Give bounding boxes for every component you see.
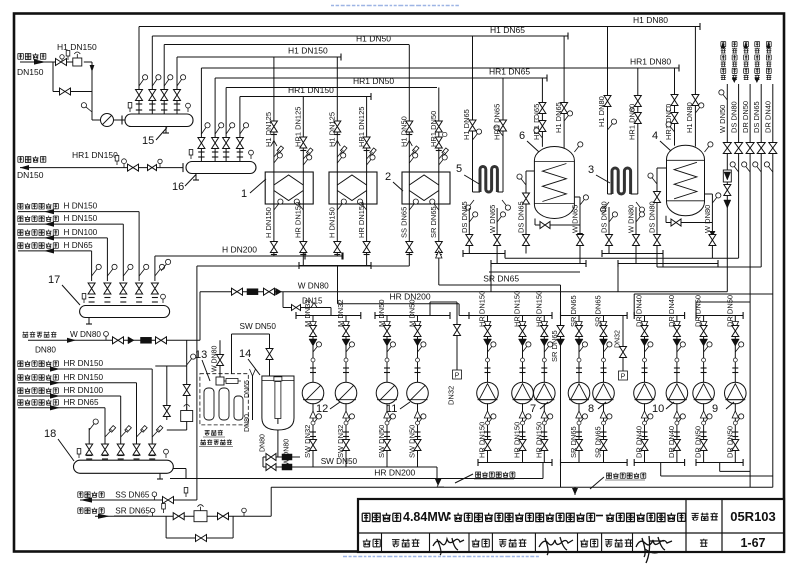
riser 1 from header 15	[138, 27, 140, 115]
svg-text:HR DN200: HR DN200	[390, 292, 431, 302]
pump at x522.5	[512, 382, 534, 404]
svg-text:HR1 DN80: HR1 DN80	[630, 57, 671, 67]
plate heat exchanger 1 unit B	[329, 172, 377, 204]
svg-text:SR DN65: SR DN65	[483, 274, 519, 284]
svg-text:HR DN150: HR DN150	[534, 422, 543, 458]
drain note text paishuiguan	[205, 430, 210, 435]
svg-text:HR DN150: HR DN150	[534, 291, 543, 327]
gauge on return line	[123, 164, 125, 168]
strainer cluster tank14 outlet	[263, 456, 300, 458]
pump at x735.3	[725, 382, 747, 404]
tank4 shell gauge	[705, 147, 709, 153]
gauge on riser 15-3	[164, 79, 169, 86]
zone return line 1	[18, 368, 152, 370]
softener cylinder A	[204, 388, 214, 420]
svg-text:W DN80: W DN80	[70, 330, 101, 339]
pump riser DR DN50 x735.3	[734, 316, 736, 383]
tank6 inlet H1 DN65	[563, 36, 565, 148]
right column arrow 5	[766, 42, 770, 48]
SR bypass vertical	[560, 285, 562, 463]
riser 2 from header 15	[151, 36, 153, 114]
zone return drop 2	[136, 383, 138, 444]
svg-text:H DN150: H DN150	[328, 207, 337, 238]
tank6 shell gauge	[574, 147, 578, 153]
svg-text:DR DN50: DR DN50	[694, 426, 703, 458]
pipe W DN80 at x636	[635, 207, 637, 264]
coil5 bottom gauges	[470, 200, 474, 206]
svg-text:H1 DN150: H1 DN150	[288, 46, 328, 56]
pipe H1 DN150	[177, 56, 341, 58]
right column CJK label 1	[721, 75, 726, 80]
signature niu xiaohua	[433, 538, 464, 555]
pump at x644.5	[634, 382, 656, 404]
svg-text:H1 DN50: H1 DN50	[356, 34, 391, 44]
pump at x579	[568, 382, 590, 404]
DR DN50 discharge to column	[696, 301, 750, 303]
gauge on riser 15-1	[139, 79, 144, 86]
SR riser up to long line	[270, 487, 272, 516]
svg-text:SR DN65: SR DN65	[429, 206, 438, 238]
bypass pipes left of softener	[186, 340, 188, 430]
title block column dividers	[685, 499, 687, 552]
drum17 drain	[88, 318, 90, 325]
svg-text:11: 11	[386, 403, 397, 415]
coil3 bottom gauges	[605, 202, 609, 208]
zone supply riser 3	[106, 238, 108, 281]
w80 gauge	[105, 336, 107, 340]
DR DN50 column down	[749, 154, 751, 488]
svg-text:H1 DN80: H1 DN80	[633, 15, 668, 25]
pipe HR1 DN150	[240, 96, 371, 98]
pump outlet x644.5	[644, 403, 646, 462]
svg-text:DS DN65: DS DN65	[460, 201, 469, 233]
svg-text:P: P	[455, 372, 460, 379]
svg-text:DS DN65: DS DN65	[517, 201, 526, 233]
pipe H DN150 under HX1a	[273, 204, 275, 256]
svg-text:H DN150: H DN150	[64, 214, 98, 223]
collector seg DS coil5	[463, 253, 505, 255]
flange ticks riser 15-2	[149, 103, 155, 105]
svg-text:HR1 DN50: HR1 DN50	[429, 111, 438, 147]
pump riser M DN32 x313	[312, 316, 314, 383]
svg-text:6: 6	[519, 130, 525, 142]
drum18 drain	[159, 473, 161, 479]
svg-text:W DN80: W DN80	[298, 282, 329, 291]
svg-text:HR1 DN150: HR1 DN150	[72, 150, 118, 160]
valve on supply line	[56, 59, 67, 66]
header drum 15	[125, 114, 193, 127]
zone return drop 1	[151, 369, 153, 444]
header drum 18	[74, 460, 174, 473]
bypass prv	[181, 411, 193, 422]
pump at x417.5	[407, 382, 429, 404]
volume heat exchanger tank 6	[534, 147, 574, 219]
pump outlet x417.5	[417, 403, 419, 467]
svg-text:H1 DN125: H1 DN125	[264, 112, 273, 147]
drum 15 drain	[165, 127, 167, 134]
pump riser M DN32 x346	[345, 316, 347, 383]
W DN50 down components	[726, 154, 728, 292]
flange ticks riser 15-1	[136, 103, 142, 105]
svg-text:W DN80: W DN80	[627, 205, 636, 233]
tank14 drain pipe down	[277, 430, 279, 457]
gauge on riser 15-2	[152, 79, 157, 86]
pump outlet x487.5	[487, 403, 489, 462]
SR bypass loop	[165, 516, 167, 538]
pipe H1 DN125 drop to HX1a	[273, 57, 275, 172]
softened water tank 14	[262, 376, 294, 430]
gauge on riser 16-2	[215, 127, 220, 134]
w80 strainer	[141, 337, 152, 343]
svg-text:H1 DN125: H1 DN125	[328, 112, 337, 147]
svg-text:05R103: 05R103	[730, 509, 776, 524]
svg-text:DS DN80: DS DN80	[729, 101, 738, 133]
pipe SR DN65 under HX2	[438, 204, 440, 285]
svg-text:M DN32: M DN32	[303, 299, 312, 327]
svg-text:2: 2	[385, 171, 391, 183]
watermark bottom blue text	[343, 556, 539, 558]
right column valve W DN50	[723, 143, 731, 154]
pump group 11 suction header	[375, 315, 450, 317]
right column valve DS DN65	[757, 143, 765, 154]
right column arrow 4	[755, 78, 760, 83]
riser 3 from header 15	[163, 45, 165, 115]
parallel W seg line	[489, 271, 580, 273]
pump riser HR DN150 x522.5	[522, 316, 524, 383]
svg-text:DR DN40: DR DN40	[764, 101, 773, 133]
svg-text:SW DN32: SW DN32	[303, 425, 312, 458]
svg-text:H1 DN50: H1 DN50	[400, 116, 409, 147]
tank6 inlet HR1 DN65	[541, 78, 543, 147]
svg-text:12: 12	[316, 403, 328, 415]
svg-text:9: 9	[712, 403, 718, 415]
svg-text:W DN80: W DN80	[703, 205, 712, 233]
svg-text:15: 15	[142, 135, 154, 147]
svg-text:HR DN150: HR DN150	[294, 202, 303, 238]
svg-text:H DN150: H DN150	[64, 202, 98, 211]
pump outlet x603.5	[603, 403, 605, 462]
gauge on riser 16-1	[201, 127, 206, 134]
pool return line SR DN65	[95, 515, 271, 517]
svg-text:HR1 DN125: HR1 DN125	[294, 107, 303, 147]
svg-text:SR DN65: SR DN65	[115, 507, 150, 516]
pump at x346	[335, 382, 357, 404]
pipe H1 DN80 top	[139, 26, 700, 28]
svg-text:DR DN40: DR DN40	[635, 426, 644, 458]
ruanhua shuixiang note 1	[437, 479, 444, 487]
drum17 instruments	[83, 299, 85, 303]
water softener unit 13 dashed enclosure	[200, 374, 248, 425]
sheji label	[580, 539, 588, 547]
svg-text:DS DN80: DS DN80	[600, 201, 609, 233]
w80 valve1	[113, 337, 124, 344]
header18 riser valves	[86, 444, 93, 455]
return label rewang huishui	[18, 157, 23, 163]
svg-text:SW DN32: SW DN32	[336, 425, 345, 458]
gauge on riser 16-4	[240, 127, 245, 134]
relief symbol 1	[435, 479, 441, 486]
zone supply line 1	[18, 211, 139, 213]
w80 riser to W main	[199, 292, 201, 341]
second valve check on return	[148, 165, 157, 171]
svg-text:4.84MW: 4.84MW	[403, 510, 450, 524]
svg-text:H1 DN150: H1 DN150	[57, 42, 97, 52]
pump riser DR DN40 x676.9	[676, 316, 678, 383]
pump group 8 header	[561, 315, 628, 317]
header18 riser 1 short	[88, 428, 90, 444]
DS DN65 column down	[760, 154, 762, 268]
shenhe label	[363, 539, 371, 547]
pump outlet x346	[345, 403, 347, 467]
svg-text:HR DN150: HR DN150	[478, 422, 487, 458]
svg-text:W DN50: W DN50	[718, 105, 727, 133]
SR prv	[194, 511, 207, 522]
coil heat exchanger 5 serpentine	[480, 166, 497, 192]
svg-text:SR DN65: SR DN65	[569, 426, 578, 458]
svg-text:DR DN50: DR DN50	[694, 295, 703, 327]
collector seg DS coil3	[602, 253, 663, 255]
pump outlet x703.6	[703, 403, 705, 462]
softener feed pipe W DN80	[219, 340, 221, 377]
valve on riser 16-2	[212, 138, 219, 149]
svg-text:DN150: DN150	[17, 170, 44, 180]
SS riser to HX2	[196, 266, 198, 500]
drum 16 left instrument	[190, 155, 192, 159]
svg-text:DN65: DN65	[244, 380, 251, 398]
bypass valve	[60, 88, 71, 95]
valve on riser 15-3	[161, 90, 168, 101]
svg-text:SW DN50: SW DN50	[240, 322, 277, 331]
title block row divider	[358, 532, 784, 534]
zone return line 3	[18, 395, 121, 397]
tank4 inlet H1 DN80	[694, 27, 696, 147]
valve on riser 15-1	[136, 90, 143, 101]
long SR suction line bottom	[271, 486, 773, 488]
drum 15 left instrument	[129, 108, 131, 112]
right column valve DS DN80	[735, 143, 743, 154]
relief symbol 2	[572, 488, 578, 495]
main title text zongrefuhe 4.84MW	[362, 513, 370, 521]
svg-text:5: 5	[456, 163, 462, 175]
riser 1 from header 16	[200, 68, 202, 162]
pump outlet x676.9	[676, 403, 678, 462]
svg-text:H1 DN65: H1 DN65	[490, 25, 525, 35]
pump group 9 header	[696, 315, 743, 317]
zone return drop 3	[120, 396, 122, 444]
zhu guosheng name	[605, 540, 613, 547]
pipe DS DN65 at x526	[523, 235, 530, 246]
signature guo qizhi	[539, 537, 573, 555]
signature zhu guosheng	[636, 536, 672, 563]
valve on riser 15-2	[149, 90, 156, 101]
DS main riser to DS DN80 column	[504, 254, 506, 259]
right column pipe DS DN80	[738, 84, 740, 148]
supply label rewang gongshui	[18, 54, 23, 60]
header 17 riser valves	[88, 283, 95, 294]
right column arrow 3	[744, 42, 748, 48]
svg-text:7: 7	[530, 403, 536, 415]
w main valve1	[232, 288, 243, 295]
tank4 left pipe DS	[656, 168, 658, 267]
pump group 12 suction header	[296, 315, 361, 317]
pipe DS DN65 at x469.3	[468, 208, 470, 254]
zone supply line 3	[18, 237, 107, 239]
valve on riser 16-1	[198, 138, 205, 149]
svg-text:DR DN40: DR DN40	[635, 295, 644, 327]
pump riser DR DN40 x644.5	[644, 316, 646, 383]
svg-text:H1 DN80: H1 DN80	[597, 96, 606, 127]
w80 valve2	[156, 337, 167, 344]
svg-text:H DN65: H DN65	[64, 241, 94, 250]
svg-text:SR DN65: SR DN65	[594, 295, 603, 327]
instrument on return	[116, 161, 118, 165]
right column pipe DS DN65	[760, 84, 762, 148]
w main check	[276, 288, 282, 295]
HR DN200 vertical to pump suction	[458, 304, 460, 316]
pipe W DN80 at x712.4	[709, 235, 716, 246]
right column CJK label 4	[755, 75, 760, 80]
ye page label	[700, 539, 708, 547]
collector HR segs under HX1	[299, 265, 371, 267]
pump riser SR DN65 x603.5	[603, 316, 605, 383]
right column arrow 2	[732, 78, 737, 83]
flange ticks riser 15-3	[161, 103, 167, 105]
pump riser M DN50 x387	[386, 316, 388, 383]
guo qizhi name	[499, 540, 507, 547]
gauge on downpipe	[86, 107, 92, 112]
svg-text:14: 14	[239, 348, 251, 360]
header drum 17	[80, 306, 170, 318]
drum 16 right gauge	[250, 155, 252, 159]
softener top control box	[216, 377, 224, 385]
svg-text:HR DN150: HR DN150	[64, 359, 104, 368]
svg-text:16: 16	[172, 181, 184, 193]
w main valve2	[264, 288, 275, 295]
tuji hao label	[691, 513, 698, 520]
svg-text:DR DN40: DR DN40	[667, 295, 676, 327]
bottom row cell dividers	[381, 533, 383, 552]
tank6 bottom drain	[535, 224, 580, 226]
svg-text:DS DN65: DS DN65	[752, 101, 761, 133]
svg-text:HR1 DN150: HR1 DN150	[288, 85, 334, 95]
svg-text:DR DN50: DR DN50	[725, 426, 734, 458]
pump at x676.9	[666, 382, 688, 404]
riser 4 from header 16	[239, 97, 241, 162]
header drum 16	[186, 162, 256, 174]
w main strainer	[247, 289, 258, 295]
svg-text:H1 DN65: H1 DN65	[554, 102, 563, 133]
pump group 7 discharge header	[469, 315, 552, 317]
DR DN40 column down	[772, 154, 774, 488]
pipe HR1 DN50 drop to HX2	[438, 88, 440, 173]
pump riser HR DN150 x544.3	[543, 316, 545, 383]
pump riser M DN50 x417.5	[417, 316, 419, 383]
gauge on riser 16-3	[226, 127, 231, 134]
svg-text:DN80: DN80	[35, 346, 56, 355]
W DN80 main line across	[200, 291, 727, 293]
svg-text:DR DN50: DR DN50	[725, 295, 734, 327]
tank6 drain check down	[577, 233, 583, 239]
pump outlet x522.5	[522, 403, 524, 462]
pipe H1 DN50	[164, 44, 409, 46]
svg-text:DN32: DN32	[447, 386, 456, 405]
svg-text:DS DN80: DS DN80	[648, 201, 657, 233]
gauge pair on supply	[61, 59, 63, 62]
riser 2 from header 16	[214, 78, 216, 162]
valve on riser 15-4	[174, 90, 181, 101]
svg-text:W DN65: W DN65	[571, 205, 580, 233]
gauges on DS W pipes	[469, 217, 473, 223]
drain funnel under softener	[250, 369, 256, 376]
tank4 inlet HR1 DN80	[674, 68, 676, 146]
softener cylinder C small	[234, 396, 243, 420]
valve on riser 16-3	[223, 138, 230, 149]
riser 4 from header 15	[176, 57, 178, 114]
pipe HR1 DN50	[226, 87, 437, 89]
svg-text:10: 10	[652, 403, 664, 415]
right column pipe DR DN50	[749, 84, 751, 148]
right column arrow 1	[721, 42, 725, 48]
svg-text:1-67: 1-67	[740, 536, 765, 550]
volume heat exchanger tank 4	[667, 145, 705, 216]
ruanhua shuixiang note 2	[606, 473, 611, 478]
pipe HR1 DN125 drop to HX1a	[302, 97, 304, 173]
DN32 bypass pumps 8	[622, 316, 624, 381]
niu xiaohua name	[392, 540, 400, 547]
svg-text:HR1 DN125: HR1 DN125	[357, 107, 366, 147]
pump at x487.5	[477, 382, 499, 404]
right column CJK label 3	[744, 75, 749, 80]
DR DN40 discharge to column	[634, 293, 773, 295]
svg-text:SR DN65: SR DN65	[569, 295, 578, 327]
pipe HR1 DN125 drop to HX1b	[366, 97, 368, 173]
pipe HR1 DN65	[215, 77, 547, 79]
svg-text:HR1 DN65: HR1 DN65	[489, 67, 530, 77]
group 10 collector jog to DR DN40 column	[660, 463, 662, 477]
pipe SS DN65 under HX2	[408, 204, 410, 266]
DS DN80 column down to W-DS mains	[738, 154, 740, 259]
svg-text:HR DN150: HR DN150	[64, 373, 104, 382]
pipe HR1 DN80	[201, 67, 679, 69]
coil5 inlet pipe H1 DN65	[472, 36, 474, 192]
svg-text:HR DN150: HR DN150	[357, 202, 366, 238]
zone return line 2	[18, 382, 137, 384]
pipe H1 DN50 drop to HX2	[408, 45, 410, 173]
pipe HR DN150 under HX1b	[366, 204, 368, 266]
svg-text:DR DN40: DR DN40	[667, 426, 676, 458]
SR valve 1	[173, 513, 184, 520]
svg-text:H DN200: H DN200	[222, 245, 257, 255]
riser 3 from header 16	[225, 88, 227, 162]
collector seg W tank4	[618, 263, 718, 265]
tick before drum16	[182, 163, 184, 172]
svg-text:8: 8	[588, 403, 594, 415]
svg-text:HR1 DN50: HR1 DN50	[353, 76, 394, 86]
pipe W DN65 at x580	[577, 235, 584, 246]
pipe HR DN150 under HX1a	[302, 204, 304, 266]
svg-text:HR DN150: HR DN150	[513, 422, 522, 458]
zone supply riser 4	[91, 251, 93, 281]
tank6 right pipe W	[579, 197, 581, 264]
drum 15 right gauge	[187, 108, 189, 112]
pump riser DR DN50 x703.6	[703, 316, 705, 383]
svg-text:SS DN65: SS DN65	[115, 491, 150, 500]
svg-text:SW DN50: SW DN50	[377, 425, 386, 458]
right column CJK label 2	[732, 75, 737, 80]
svg-text:1: 1	[241, 188, 247, 200]
pump outlet x579	[578, 403, 580, 462]
pump riser HR DN150 x487.5	[487, 316, 489, 383]
